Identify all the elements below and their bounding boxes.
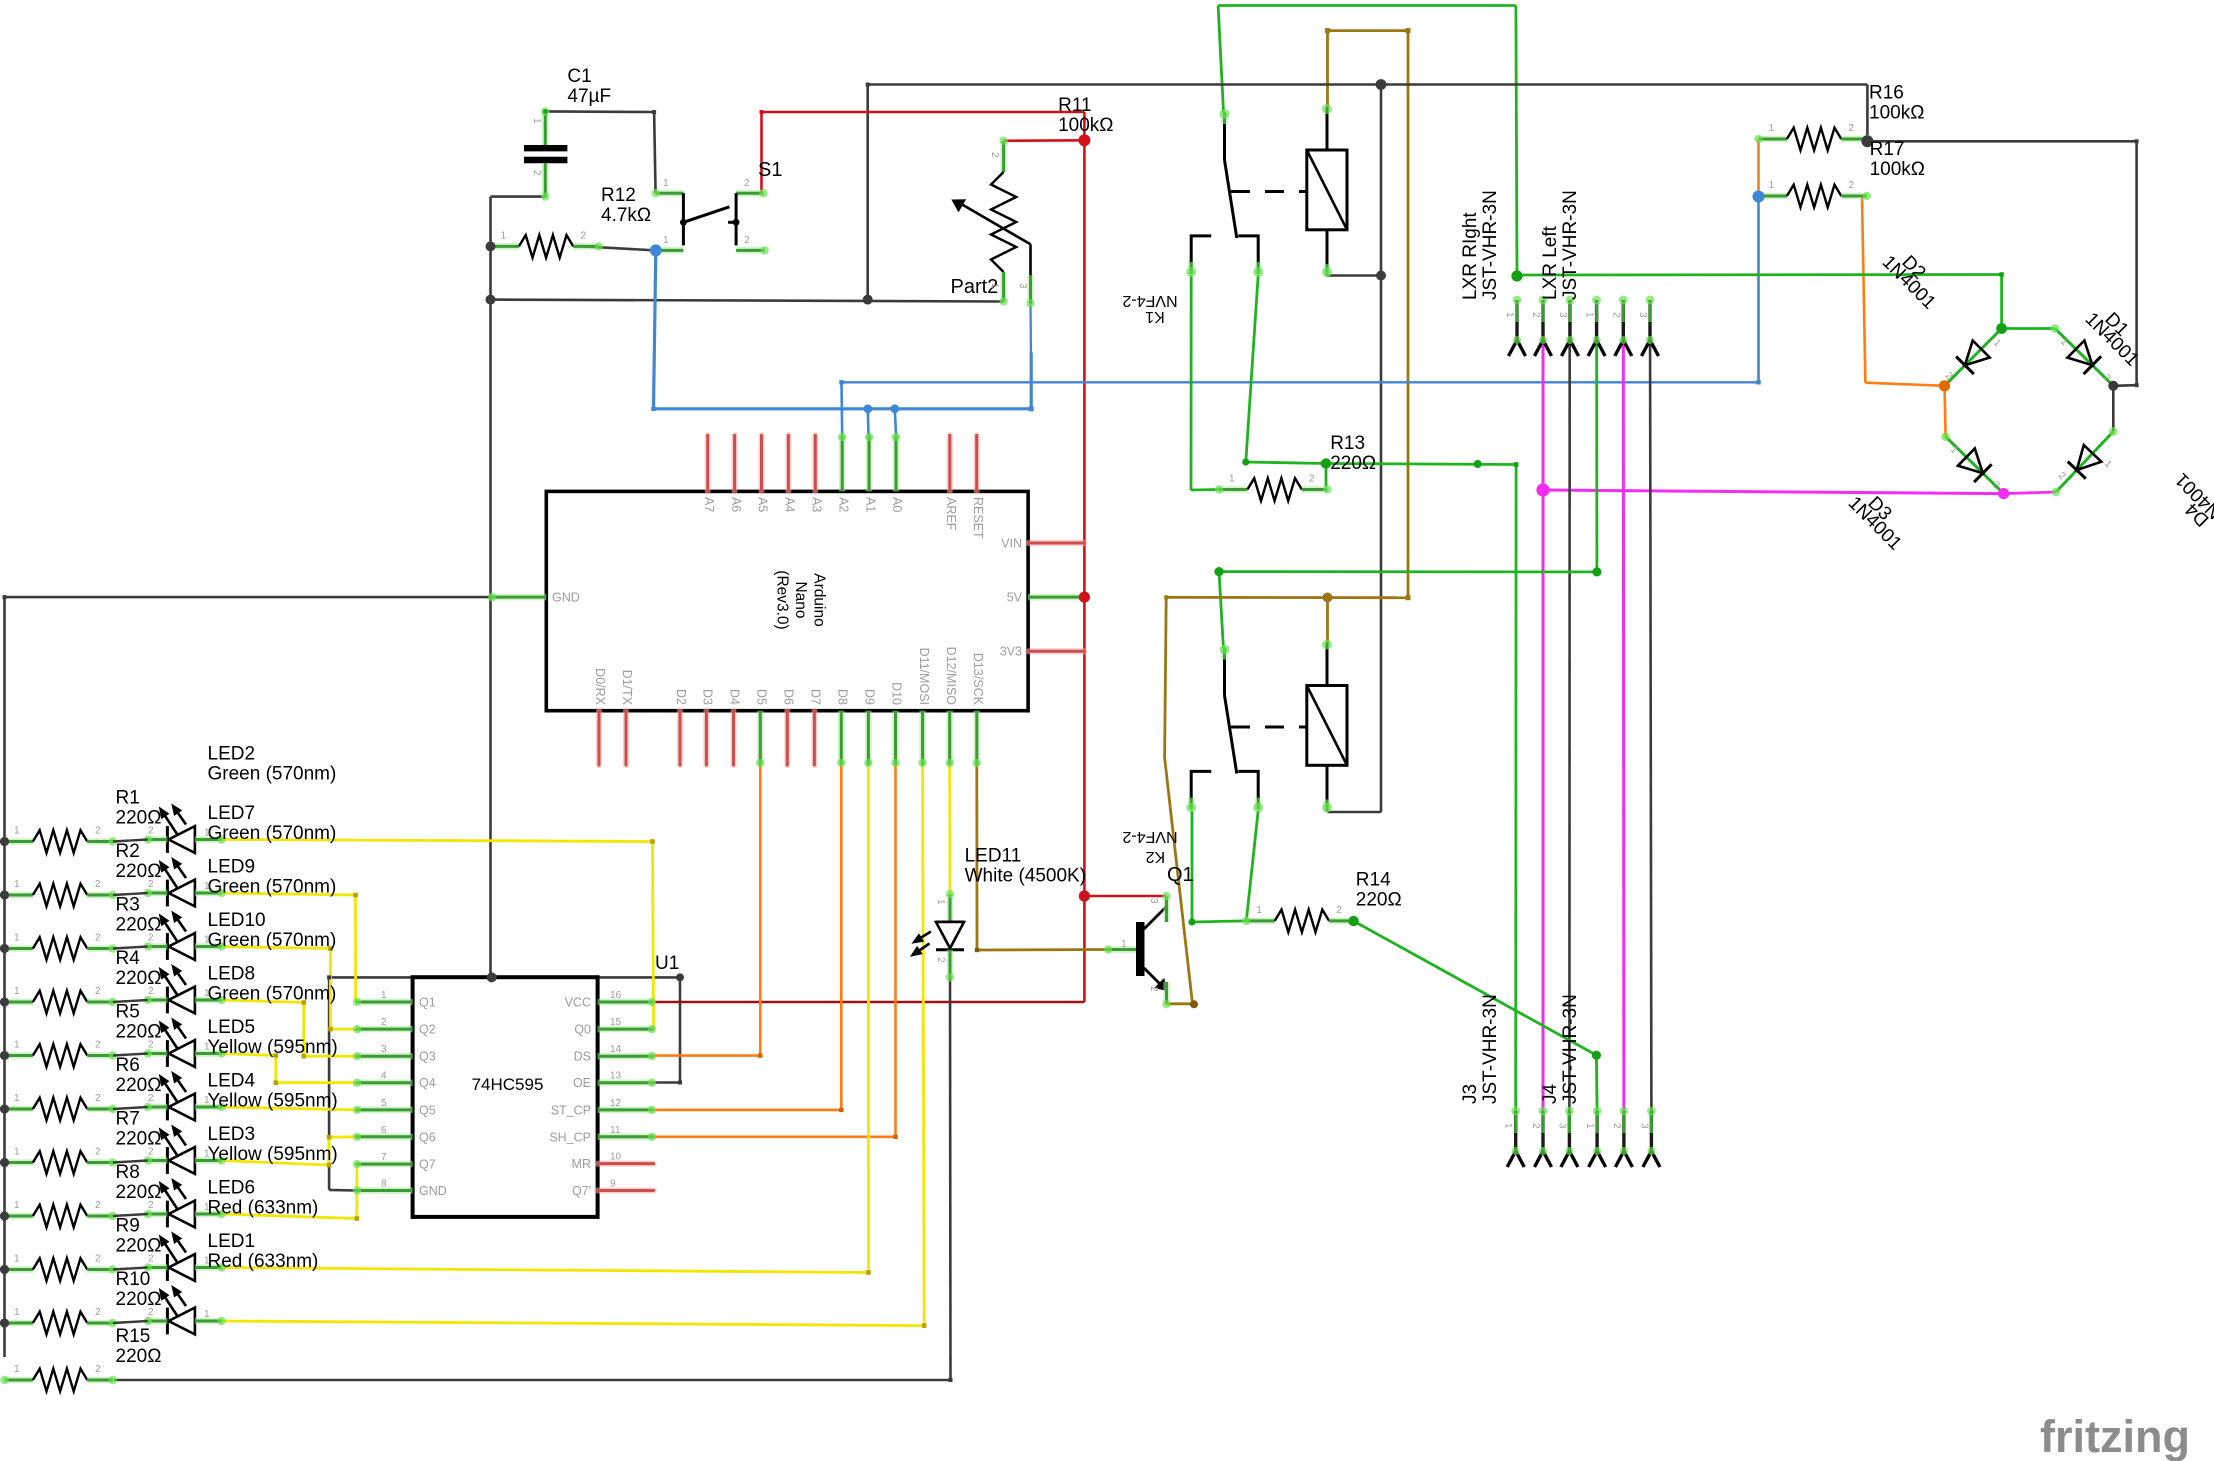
svg-text:2: 2 xyxy=(1610,312,1621,318)
svg-text:2: 2 xyxy=(95,1307,101,1318)
svg-text:220Ω: 220Ω xyxy=(116,1129,162,1150)
svg-text:D9: D9 xyxy=(863,689,877,705)
svg-text:Q6: Q6 xyxy=(419,1130,436,1144)
svg-text:1: 1 xyxy=(14,1093,20,1104)
svg-text:Green (570nm): Green (570nm) xyxy=(208,764,337,785)
svg-text:D0/RX: D0/RX xyxy=(593,668,607,705)
svg-text:3: 3 xyxy=(1556,1123,1567,1129)
svg-text:LED11: LED11 xyxy=(965,846,1022,867)
svg-text:47µF: 47µF xyxy=(567,86,611,107)
svg-text:D1/TX: D1/TX xyxy=(620,670,634,706)
svg-text:220Ω: 220Ω xyxy=(1330,453,1376,474)
svg-text:1: 1 xyxy=(204,1095,210,1106)
svg-text:LED1: LED1 xyxy=(208,1231,256,1252)
svg-text:7: 7 xyxy=(381,1152,387,1163)
svg-text:4.7kΩ: 4.7kΩ xyxy=(601,205,651,226)
svg-text:2: 2 xyxy=(95,1200,101,1211)
svg-text:1: 1 xyxy=(204,1309,210,1320)
svg-text:D2: D2 xyxy=(674,689,688,705)
svg-text:K2: K2 xyxy=(1146,848,1166,865)
svg-text:LED8: LED8 xyxy=(208,964,256,985)
svg-text:D8: D8 xyxy=(836,689,850,705)
svg-text:A3: A3 xyxy=(810,497,824,512)
svg-text:100kΩ: 100kΩ xyxy=(1058,115,1113,136)
svg-text:D4: D4 xyxy=(728,689,742,705)
svg-text:1: 1 xyxy=(1256,905,1262,916)
svg-text:8: 8 xyxy=(381,1179,387,1190)
svg-text:2: 2 xyxy=(95,879,101,890)
svg-text:2: 2 xyxy=(148,1093,154,1104)
svg-text:220Ω: 220Ω xyxy=(116,1075,162,1096)
svg-text:3: 3 xyxy=(1637,312,1648,318)
svg-text:Q7': Q7' xyxy=(572,1184,591,1198)
svg-text:Green (570nm): Green (570nm) xyxy=(208,877,337,898)
svg-text:5: 5 xyxy=(381,1098,387,1109)
svg-text:K1: K1 xyxy=(1145,308,1165,325)
svg-text:2: 2 xyxy=(148,1254,154,1265)
svg-text:Yellow (595nm): Yellow (595nm) xyxy=(208,1144,338,1165)
svg-text:2: 2 xyxy=(95,1254,101,1265)
svg-text:1: 1 xyxy=(1504,312,1515,318)
svg-text:220Ω: 220Ω xyxy=(116,1346,162,1367)
svg-text:AREF: AREF xyxy=(944,497,958,531)
svg-text:2: 2 xyxy=(148,1200,154,1211)
svg-text:R10: R10 xyxy=(116,1269,151,1290)
svg-text:1: 1 xyxy=(1229,474,1235,485)
svg-text:2: 2 xyxy=(1849,123,1855,134)
svg-text:1: 1 xyxy=(935,899,946,905)
svg-text:R8: R8 xyxy=(116,1162,140,1183)
svg-text:R1: R1 xyxy=(116,788,140,809)
svg-text:1: 1 xyxy=(381,990,387,1001)
svg-text:3V3: 3V3 xyxy=(1000,645,1022,659)
svg-text:1: 1 xyxy=(663,235,669,246)
svg-text:GND: GND xyxy=(419,1184,447,1198)
svg-text:OE: OE xyxy=(573,1076,591,1090)
svg-text:1: 1 xyxy=(531,118,542,124)
svg-text:220Ω: 220Ω xyxy=(116,1236,162,1257)
svg-text:Yellow (595nm): Yellow (595nm) xyxy=(208,1037,338,1058)
svg-text:A6: A6 xyxy=(729,497,743,512)
svg-text:D13/SCK: D13/SCK xyxy=(971,653,985,706)
svg-text:NVF4-2: NVF4-2 xyxy=(1122,292,1177,309)
svg-text:2: 2 xyxy=(1530,312,1541,318)
svg-text:fritzing: fritzing xyxy=(2040,1411,2190,1461)
svg-text:R15: R15 xyxy=(116,1326,151,1347)
svg-text:100kΩ: 100kΩ xyxy=(1870,159,1925,180)
svg-text:220Ω: 220Ω xyxy=(116,915,162,936)
svg-text:D10: D10 xyxy=(890,682,904,705)
svg-text:220Ω: 220Ω xyxy=(116,861,162,882)
svg-text:6: 6 xyxy=(381,1125,387,1136)
svg-text:1: 1 xyxy=(204,1042,210,1053)
svg-text:1: 1 xyxy=(14,879,20,890)
svg-text:5V: 5V xyxy=(1007,591,1023,605)
svg-text:Yellow (595nm): Yellow (595nm) xyxy=(208,1091,338,1112)
svg-text:VCC: VCC xyxy=(565,996,591,1010)
svg-text:1: 1 xyxy=(14,1307,20,1318)
svg-text:1: 1 xyxy=(14,1254,20,1265)
svg-text:A1: A1 xyxy=(863,497,877,512)
svg-text:1: 1 xyxy=(204,1256,210,1267)
svg-text:1: 1 xyxy=(989,283,1000,289)
svg-text:1: 1 xyxy=(204,1149,210,1160)
svg-text:2: 2 xyxy=(148,1040,154,1051)
svg-text:1: 1 xyxy=(1584,312,1595,318)
svg-text:Q7: Q7 xyxy=(419,1158,436,1172)
svg-text:3: 3 xyxy=(1148,898,1159,904)
svg-text:Red (633nm): Red (633nm) xyxy=(208,1198,319,1219)
svg-text:220Ω: 220Ω xyxy=(116,1022,162,1043)
svg-text:JST-VHR-3N: JST-VHR-3N xyxy=(1560,994,1581,1104)
svg-text:2: 2 xyxy=(581,230,587,241)
svg-text:3: 3 xyxy=(1557,312,1568,318)
svg-text:A0: A0 xyxy=(890,497,904,512)
svg-text:R14: R14 xyxy=(1356,870,1391,891)
svg-text:9: 9 xyxy=(610,1179,616,1190)
svg-text:R5: R5 xyxy=(116,1002,140,1023)
svg-text:4: 4 xyxy=(381,1071,387,1082)
svg-text:Q5: Q5 xyxy=(419,1103,436,1117)
svg-text:D11/MOSI: D11/MOSI xyxy=(917,648,931,705)
svg-text:1: 1 xyxy=(1584,1123,1595,1129)
svg-text:1: 1 xyxy=(1121,939,1127,950)
svg-text:2: 2 xyxy=(95,1093,101,1104)
svg-text:JST-VHR-3N: JST-VHR-3N xyxy=(1560,190,1581,300)
svg-text:LXR RIght: LXR RIght xyxy=(1460,212,1481,300)
svg-text:A7: A7 xyxy=(702,497,716,512)
svg-text:JST-VHR-3N: JST-VHR-3N xyxy=(1480,994,1501,1104)
svg-text:RESET: RESET xyxy=(971,497,985,539)
svg-text:2: 2 xyxy=(989,152,1000,158)
svg-text:2: 2 xyxy=(95,1040,101,1051)
svg-text:R7: R7 xyxy=(116,1109,140,1130)
svg-text:Nano: Nano xyxy=(792,581,809,618)
svg-text:1: 1 xyxy=(204,881,210,892)
svg-text:2: 2 xyxy=(95,986,101,997)
svg-text:2: 2 xyxy=(1148,986,1159,992)
svg-text:Green (570nm): Green (570nm) xyxy=(208,930,337,951)
svg-text:R2: R2 xyxy=(116,841,140,862)
svg-text:Q3: Q3 xyxy=(419,1050,436,1064)
svg-text:Red (633nm): Red (633nm) xyxy=(208,1251,319,1272)
svg-text:2: 2 xyxy=(95,826,101,837)
svg-text:A5: A5 xyxy=(756,497,770,512)
svg-text:2: 2 xyxy=(1309,474,1315,485)
svg-text:1: 1 xyxy=(1769,123,1775,134)
svg-text:R11: R11 xyxy=(1058,95,1091,116)
svg-text:2: 2 xyxy=(95,933,101,944)
svg-text:14: 14 xyxy=(610,1044,622,1055)
svg-text:15: 15 xyxy=(610,1017,622,1028)
svg-text:ST_CP: ST_CP xyxy=(551,1103,591,1117)
svg-text:1: 1 xyxy=(1769,180,1775,191)
svg-text:NVF4-2: NVF4-2 xyxy=(1122,828,1177,845)
svg-text:3: 3 xyxy=(381,1044,387,1055)
svg-text:U1: U1 xyxy=(655,953,679,974)
svg-text:Green (570nm): Green (570nm) xyxy=(208,984,337,1005)
svg-text:LED7: LED7 xyxy=(208,803,256,824)
svg-text:LED5: LED5 xyxy=(208,1017,256,1038)
svg-text:1: 1 xyxy=(501,230,507,241)
svg-text:R4: R4 xyxy=(116,948,141,969)
svg-text:R12: R12 xyxy=(601,185,636,206)
svg-text:Green (570nm): Green (570nm) xyxy=(208,823,337,844)
svg-text:1: 1 xyxy=(14,986,20,997)
svg-text:2: 2 xyxy=(1336,905,1342,916)
svg-text:13: 13 xyxy=(610,1071,622,1082)
svg-text:Q2: Q2 xyxy=(419,1023,436,1037)
svg-text:2: 2 xyxy=(935,957,946,963)
svg-text:D5: D5 xyxy=(755,689,769,705)
svg-text:1: 1 xyxy=(1503,1123,1514,1129)
svg-text:10: 10 xyxy=(610,1152,622,1163)
svg-text:100kΩ: 100kΩ xyxy=(1869,103,1924,124)
svg-text:(Rev3.0): (Rev3.0) xyxy=(774,570,791,629)
svg-text:2: 2 xyxy=(148,1307,154,1318)
svg-text:Arduino: Arduino xyxy=(811,573,828,626)
svg-text:LXR Left: LXR Left xyxy=(1540,225,1561,300)
svg-text:220Ω: 220Ω xyxy=(116,968,162,989)
svg-text:C1: C1 xyxy=(567,66,591,87)
svg-text:Q0: Q0 xyxy=(574,1023,591,1037)
svg-text:2: 2 xyxy=(95,1364,101,1375)
svg-text:J3: J3 xyxy=(1460,1084,1481,1104)
svg-text:R6: R6 xyxy=(116,1055,140,1076)
svg-text:R17: R17 xyxy=(1870,139,1905,160)
svg-text:3: 3 xyxy=(1638,1123,1649,1129)
svg-text:220Ω: 220Ω xyxy=(116,1289,162,1310)
svg-text:S1: S1 xyxy=(758,159,782,181)
svg-text:R16: R16 xyxy=(1869,83,1904,104)
svg-text:2: 2 xyxy=(1611,1123,1622,1129)
svg-text:2: 2 xyxy=(148,986,154,997)
svg-text:VIN: VIN xyxy=(1001,537,1022,551)
svg-text:R3: R3 xyxy=(116,895,140,916)
svg-text:D3: D3 xyxy=(701,689,715,705)
svg-text:2: 2 xyxy=(744,235,750,246)
svg-text:220Ω: 220Ω xyxy=(116,1182,162,1203)
svg-text:11: 11 xyxy=(610,1125,621,1136)
svg-text:LED4: LED4 xyxy=(208,1071,256,1092)
svg-text:D7: D7 xyxy=(809,689,823,705)
svg-text:12: 12 xyxy=(610,1098,622,1109)
svg-text:D6: D6 xyxy=(782,689,796,705)
svg-text:220Ω: 220Ω xyxy=(1356,890,1402,911)
svg-text:1: 1 xyxy=(204,988,210,999)
svg-text:LED3: LED3 xyxy=(208,1124,256,1145)
svg-text:2: 2 xyxy=(95,1147,101,1158)
svg-text:1: 1 xyxy=(14,1040,20,1051)
svg-text:LED2: LED2 xyxy=(208,744,256,765)
svg-text:D12/MISO: D12/MISO xyxy=(944,647,958,706)
svg-text:Q4: Q4 xyxy=(419,1076,436,1090)
svg-text:3: 3 xyxy=(1017,283,1028,289)
svg-text:2: 2 xyxy=(531,170,542,176)
svg-text:1: 1 xyxy=(14,826,20,837)
svg-text:DS: DS xyxy=(574,1050,591,1064)
svg-text:SH_CP: SH_CP xyxy=(549,1130,591,1144)
svg-text:2: 2 xyxy=(148,826,154,837)
svg-text:16: 16 xyxy=(610,990,622,1001)
svg-text:1: 1 xyxy=(204,935,210,946)
svg-text:1: 1 xyxy=(14,1364,20,1375)
svg-text:White (4500K): White (4500K) xyxy=(965,866,1086,887)
svg-text:R9: R9 xyxy=(116,1216,140,1237)
svg-text:LED6: LED6 xyxy=(208,1178,256,1199)
svg-text:74HC595: 74HC595 xyxy=(472,1075,544,1094)
svg-text:LED10: LED10 xyxy=(208,910,266,931)
svg-text:1: 1 xyxy=(204,1202,210,1213)
svg-text:2: 2 xyxy=(1849,180,1855,191)
svg-text:GND: GND xyxy=(552,591,580,605)
svg-text:A4: A4 xyxy=(783,497,797,512)
svg-text:MR: MR xyxy=(572,1157,591,1171)
svg-text:1: 1 xyxy=(663,178,669,189)
svg-text:2: 2 xyxy=(744,178,750,189)
svg-text:1: 1 xyxy=(14,933,20,944)
svg-text:1: 1 xyxy=(14,1200,20,1211)
svg-text:2: 2 xyxy=(1530,1123,1541,1129)
svg-text:2: 2 xyxy=(148,933,154,944)
svg-text:J4: J4 xyxy=(1540,1084,1561,1105)
svg-text:1: 1 xyxy=(14,1147,20,1158)
svg-text:1: 1 xyxy=(204,828,210,839)
svg-text:2: 2 xyxy=(148,879,154,890)
svg-text:220Ω: 220Ω xyxy=(116,808,162,829)
svg-text:A2: A2 xyxy=(836,497,850,512)
svg-text:2: 2 xyxy=(148,1147,154,1158)
svg-text:2: 2 xyxy=(381,1017,387,1028)
svg-text:LED9: LED9 xyxy=(208,857,256,878)
svg-text:R13: R13 xyxy=(1330,433,1365,454)
svg-text:JST-VHR-3N: JST-VHR-3N xyxy=(1480,190,1501,300)
svg-text:Q1: Q1 xyxy=(1167,864,1194,886)
svg-text:Q1: Q1 xyxy=(419,996,436,1010)
